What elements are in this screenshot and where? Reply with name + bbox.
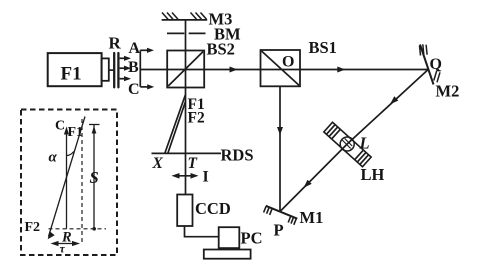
svg-text:α: α <box>49 150 58 166</box>
svg-text:F1: F1 <box>68 125 84 140</box>
svg-text:F1: F1 <box>61 64 82 85</box>
svg-text:R: R <box>109 34 122 53</box>
svg-text:I: I <box>203 169 209 186</box>
svg-text:F2: F2 <box>25 220 41 235</box>
svg-text:M1: M1 <box>300 208 324 227</box>
svg-text:RDS: RDS <box>221 146 254 165</box>
svg-text:BS2: BS2 <box>207 40 235 59</box>
svg-text:P: P <box>274 221 284 240</box>
svg-text:LH: LH <box>361 165 385 184</box>
svg-text:L: L <box>359 134 370 153</box>
svg-text:S: S <box>90 168 99 187</box>
svg-text:CCD: CCD <box>195 199 231 218</box>
svg-text:O: O <box>282 54 294 71</box>
svg-text:B: B <box>128 59 139 76</box>
svg-text:T: T <box>188 155 198 172</box>
svg-text:A: A <box>129 40 141 57</box>
svg-text:M2: M2 <box>436 82 460 101</box>
svg-text:F2: F2 <box>188 110 205 127</box>
svg-text:C: C <box>128 81 140 98</box>
svg-text:BS1: BS1 <box>309 38 337 57</box>
svg-text:Q: Q <box>430 56 442 73</box>
svg-text:τ: τ <box>60 242 66 256</box>
svg-text:C: C <box>55 119 65 134</box>
svg-text:PC: PC <box>241 229 263 248</box>
svg-text:X: X <box>152 155 164 172</box>
